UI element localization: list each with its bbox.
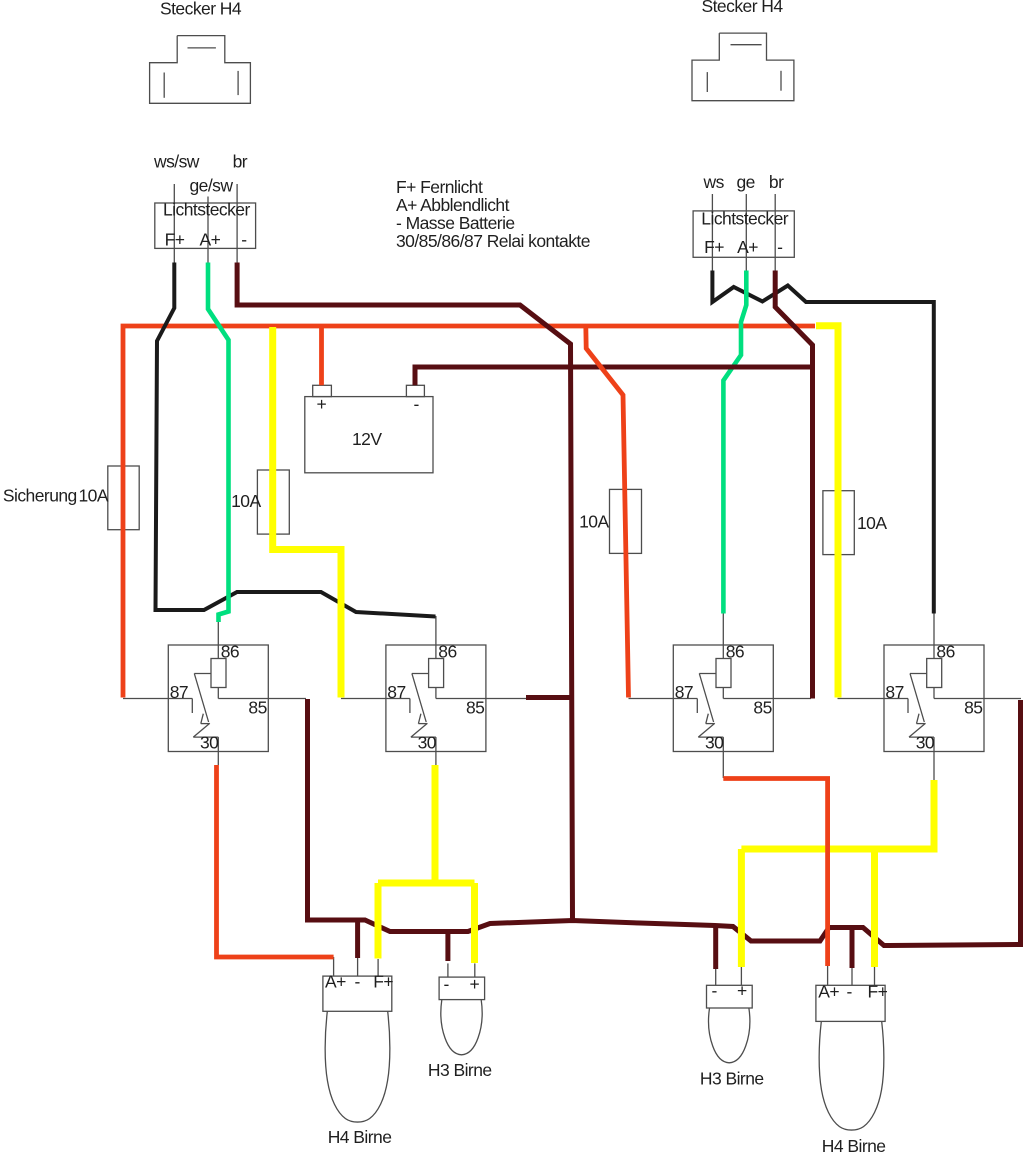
svg-text:10A: 10A [231,491,261,511]
svg-text:10A: 10A [857,513,887,533]
svg-text:Stecker H4: Stecker H4 [160,0,242,19]
svg-text:-: - [712,980,718,1000]
svg-text:86: 86 [221,641,239,661]
svg-text:87: 87 [387,682,405,702]
svg-text:A+: A+ [818,982,839,1002]
svg-text:ws/sw: ws/sw [153,152,200,172]
svg-text:30: 30 [200,732,219,752]
svg-text:87: 87 [675,682,693,702]
svg-text:30: 30 [418,732,437,752]
svg-text:H4 Birne: H4 Birne [328,1127,392,1147]
svg-text:10A: 10A [579,511,609,531]
svg-text:A+: A+ [737,237,758,257]
svg-text:12V: 12V [352,429,382,449]
svg-text:10A: 10A [79,486,109,506]
svg-text:+: + [470,974,480,994]
svg-text:Lichtstecker: Lichtstecker [701,209,788,229]
svg-text:85: 85 [466,698,484,718]
svg-text:br: br [769,172,784,192]
svg-text:ge: ge [737,172,755,192]
svg-text:-: - [414,394,420,414]
svg-text:87: 87 [170,682,188,702]
svg-text:+: + [737,980,747,1000]
svg-text:H3 Birne: H3 Birne [700,1069,764,1089]
svg-text:Lichtstecker: Lichtstecker [163,200,250,220]
svg-text:Sicherung: Sicherung [3,486,77,506]
svg-text:30/85/86/87 Relai kontakte: 30/85/86/87 Relai kontakte [396,231,590,251]
svg-text:86: 86 [936,641,954,661]
svg-text:86: 86 [726,641,744,661]
svg-text:87: 87 [885,682,903,702]
svg-text:F+: F+ [165,230,185,250]
svg-text:85: 85 [964,698,982,718]
svg-text:86: 86 [438,641,456,661]
svg-text:F+: F+ [704,237,724,257]
svg-text:85: 85 [248,698,266,718]
svg-text:br: br [233,152,248,172]
svg-text:-: - [777,237,783,257]
svg-text:A+: A+ [200,230,221,250]
svg-text:+: + [317,394,327,414]
svg-text:- Masse Batterie: - Masse Batterie [396,213,515,233]
svg-text:ws: ws [703,172,725,192]
svg-text:H4 Birne: H4 Birne [822,1136,886,1154]
svg-text:F+: F+ [373,972,393,992]
svg-text:30: 30 [916,732,935,752]
svg-text:ge/sw: ge/sw [190,175,234,195]
svg-text:F+ Fernlicht: F+ Fernlicht [396,177,483,197]
svg-text:A+: A+ [325,972,346,992]
svg-text:A+ Abblendlicht: A+ Abblendlicht [396,195,510,215]
svg-text:-: - [241,230,247,250]
svg-text:-: - [847,982,853,1002]
svg-text:H3 Birne: H3 Birne [428,1060,492,1080]
svg-text:-: - [355,972,361,992]
svg-text:30: 30 [705,732,724,752]
svg-text:-: - [444,974,450,994]
svg-text:85: 85 [753,698,771,718]
svg-text:F+: F+ [868,982,888,1002]
svg-text:Stecker H4: Stecker H4 [702,0,784,16]
